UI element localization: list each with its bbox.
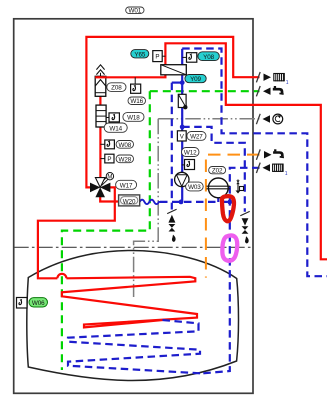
svg-text:P: P	[107, 156, 111, 163]
svg-text:Z08: Z08	[111, 85, 122, 92]
svg-text:Z02: Z02	[212, 168, 223, 175]
svg-text:W12: W12	[184, 150, 197, 157]
svg-text:W16: W16	[130, 98, 143, 105]
svg-text:W28: W28	[119, 156, 132, 163]
svg-text:W03: W03	[188, 184, 201, 191]
svg-text:Y65: Y65	[134, 51, 145, 58]
svg-text:W01: W01	[129, 7, 142, 14]
svg-text:Y09: Y09	[190, 76, 201, 83]
svg-text:W17: W17	[120, 183, 133, 190]
svg-text:1: 1	[286, 80, 289, 86]
svg-text:W08: W08	[119, 142, 132, 149]
svg-text:W14: W14	[109, 125, 122, 132]
svg-text:1: 1	[285, 171, 288, 177]
svg-text:W06: W06	[32, 300, 45, 307]
svg-text:W20: W20	[123, 198, 136, 205]
svg-text:Y08: Y08	[203, 54, 214, 61]
svg-text:M: M	[107, 174, 112, 180]
svg-text:W27: W27	[190, 134, 203, 141]
svg-text:P: P	[155, 53, 159, 60]
svg-text:W18: W18	[127, 115, 140, 122]
